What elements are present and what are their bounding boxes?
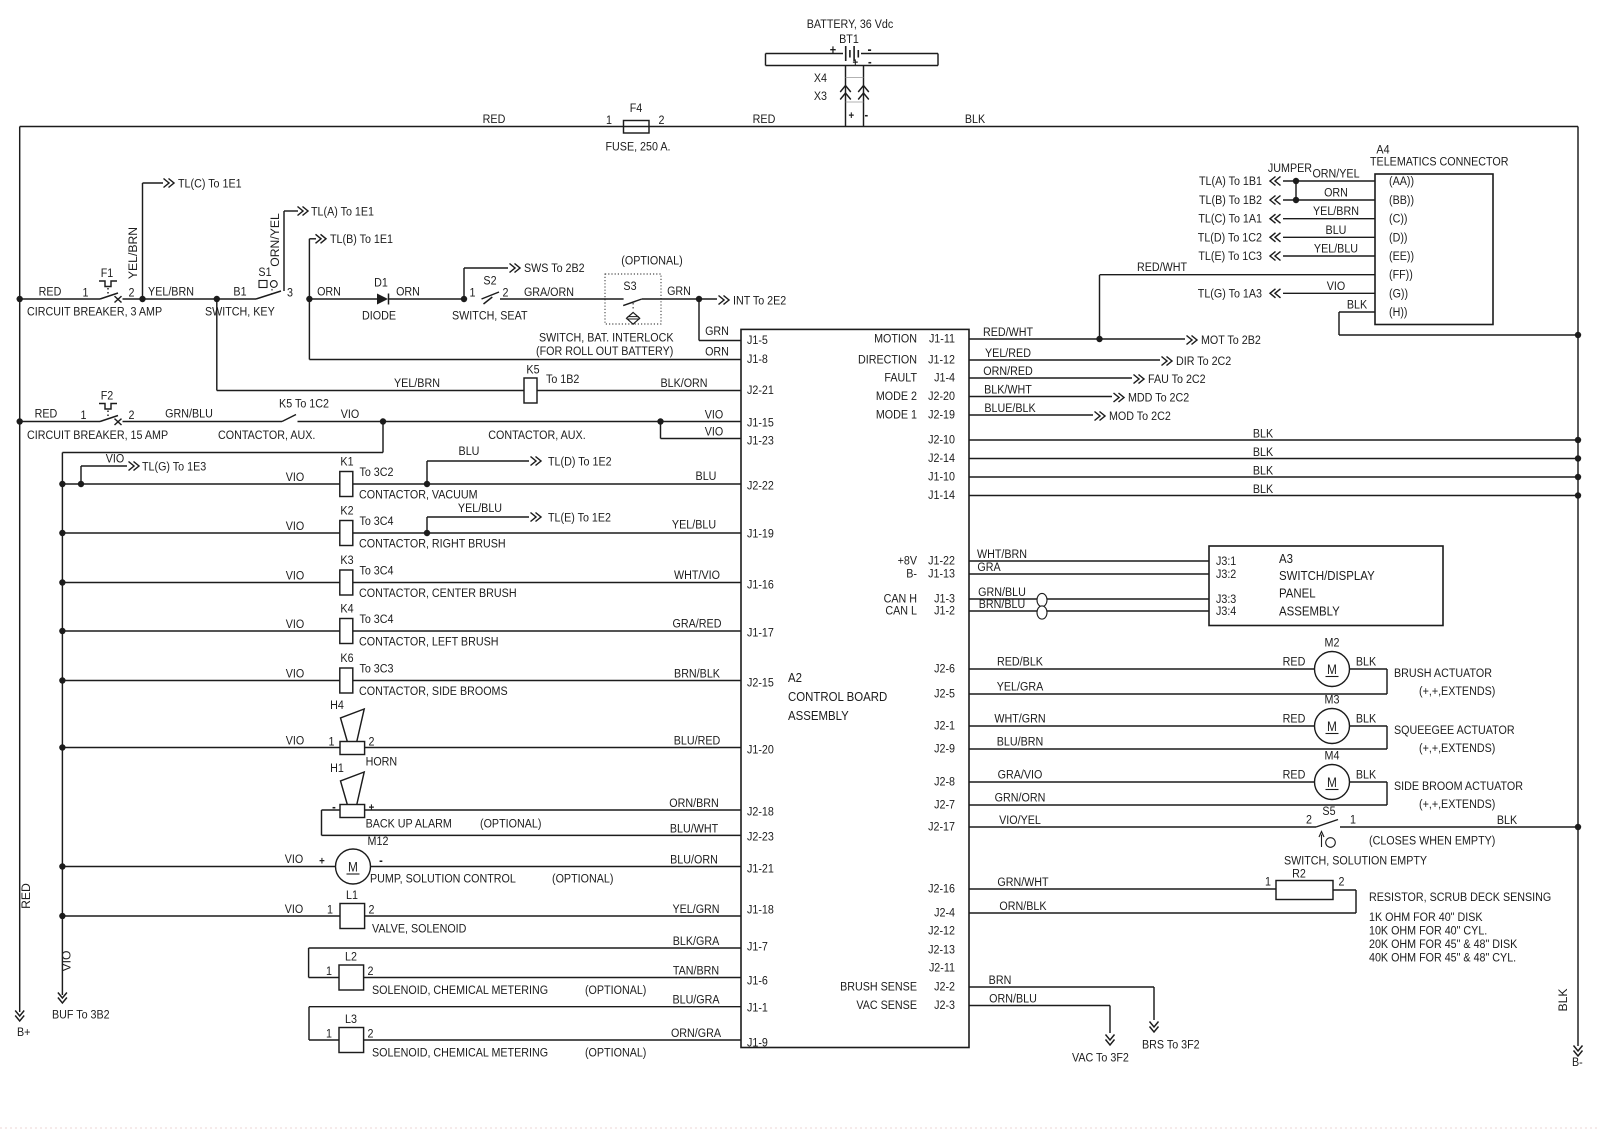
svg-text:(CLOSES WHEN EMPTY): (CLOSES WHEN EMPTY) [1369, 835, 1496, 848]
svg-text:RED/WHT: RED/WHT [983, 326, 1033, 339]
svg-text:YEL/GRN: YEL/GRN [672, 903, 719, 916]
svg-text:1: 1 [83, 287, 89, 300]
svg-text:CAN L: CAN L [885, 605, 917, 618]
svg-text:3: 3 [287, 287, 293, 300]
svg-text:1K OHM FOR 40" DISK: 1K OHM FOR 40" DISK [1369, 911, 1483, 924]
svg-text:GRN: GRN [667, 285, 691, 298]
svg-text:MDD To 2C2: MDD To 2C2 [1128, 392, 1189, 405]
svg-text:1: 1 [329, 736, 335, 749]
svg-text:M4: M4 [1325, 750, 1340, 763]
svg-text:PANEL: PANEL [1279, 586, 1316, 601]
svg-text:MOT To 2B2: MOT To 2B2 [1201, 334, 1261, 347]
svg-text:JUMPER: JUMPER [1268, 162, 1312, 175]
svg-text:YEL/BRN: YEL/BRN [394, 377, 440, 390]
svg-text:BLU/ORN: BLU/ORN [670, 854, 718, 867]
svg-text:VIO: VIO [286, 520, 305, 533]
svg-text:+: + [830, 43, 837, 57]
svg-text:S1: S1 [258, 266, 271, 279]
svg-text:J1-8: J1-8 [747, 353, 768, 366]
svg-text:CAN H: CAN H [884, 593, 917, 606]
svg-text:To 3C4: To 3C4 [359, 565, 394, 578]
svg-text:BLU/WHT: BLU/WHT [670, 823, 718, 836]
svg-text:+8V: +8V [898, 555, 918, 568]
svg-text:VIO/YEL: VIO/YEL [999, 814, 1041, 827]
svg-text:(+,+,EXTENDS): (+,+,EXTENDS) [1419, 798, 1495, 811]
svg-text:J2-23: J2-23 [747, 831, 774, 844]
svg-text:RED: RED [39, 286, 62, 299]
svg-text:(FOR ROLL OUT BATTERY): (FOR ROLL OUT BATTERY) [536, 345, 673, 358]
svg-text:J2-13: J2-13 [928, 944, 955, 957]
svg-text:2: 2 [659, 114, 665, 127]
svg-text:SWITCH/DISPLAY: SWITCH/DISPLAY [1279, 568, 1375, 583]
svg-text:J2-15: J2-15 [747, 677, 774, 690]
svg-text:VALVE, SOLENOID: VALVE, SOLENOID [372, 923, 466, 936]
svg-text:MODE 1: MODE 1 [876, 409, 917, 422]
svg-text:J2-20: J2-20 [928, 390, 955, 403]
svg-text:TL(A) To 1B1: TL(A) To 1B1 [1199, 175, 1262, 188]
svg-text:K1: K1 [340, 456, 353, 469]
svg-text:BLK: BLK [1356, 656, 1377, 669]
svg-text:M: M [348, 859, 358, 875]
svg-text:J2-8: J2-8 [934, 776, 955, 789]
svg-text:J1-9: J1-9 [747, 1037, 768, 1050]
svg-text:+: + [319, 856, 325, 868]
svg-text:CONTACTOR, SIDE BROOMS: CONTACTOR, SIDE BROOMS [359, 685, 508, 698]
svg-text:(D)): (D)) [1389, 232, 1408, 245]
svg-text:YEL/BLU: YEL/BLU [672, 519, 716, 532]
svg-text:MOD To 2C2: MOD To 2C2 [1109, 410, 1171, 423]
svg-text:BT1: BT1 [839, 33, 859, 46]
svg-text:INT To 2E2: INT To 2E2 [733, 295, 786, 308]
svg-text:M12: M12 [368, 835, 389, 848]
svg-text:2: 2 [503, 287, 509, 300]
svg-text:To 3C4: To 3C4 [359, 515, 394, 528]
svg-text:YEL/BLU: YEL/BLU [1314, 243, 1358, 256]
svg-text:X3: X3 [814, 90, 827, 103]
svg-text:(OPTIONAL): (OPTIONAL) [552, 873, 614, 886]
svg-text:J1-2: J1-2 [934, 605, 955, 618]
svg-text:VIO: VIO [285, 853, 304, 866]
svg-text:J2-17: J2-17 [928, 821, 955, 834]
svg-text:GRN/ORN: GRN/ORN [995, 792, 1046, 805]
svg-text:SIDE BROOM ACTUATOR: SIDE BROOM ACTUATOR [1394, 780, 1523, 793]
svg-text:BLK: BLK [1356, 713, 1377, 726]
svg-text:K4: K4 [340, 603, 354, 616]
svg-text:J1-5: J1-5 [747, 334, 768, 347]
svg-text:RED: RED [753, 113, 776, 126]
svg-text:YEL/GRA: YEL/GRA [997, 681, 1044, 694]
svg-text:2: 2 [1306, 814, 1312, 827]
svg-text:To 3C2: To 3C2 [359, 466, 393, 479]
svg-text:CONTACTOR, AUX.: CONTACTOR, AUX. [488, 429, 585, 442]
svg-text:MOTION: MOTION [874, 333, 917, 346]
svg-text:(+,+,EXTENDS): (+,+,EXTENDS) [1419, 742, 1495, 755]
svg-text:(H)): (H)) [1389, 306, 1408, 319]
svg-text:RESISTOR, SCRUB DECK SENSING: RESISTOR, SCRUB DECK SENSING [1369, 891, 1551, 904]
svg-text:RED/WHT: RED/WHT [1137, 262, 1187, 275]
svg-text:J2-3: J2-3 [934, 999, 955, 1012]
svg-text:J2-7: J2-7 [934, 799, 955, 812]
svg-text:GRN/BLU: GRN/BLU [165, 408, 213, 421]
svg-text:(EE)): (EE)) [1389, 250, 1414, 263]
svg-text:TL(B) To 1B2: TL(B) To 1B2 [1199, 194, 1262, 207]
svg-text:CONTACTOR, LEFT BRUSH: CONTACTOR, LEFT BRUSH [359, 636, 499, 649]
svg-text:2: 2 [368, 965, 374, 978]
svg-text:ORN/YEL: ORN/YEL [268, 213, 282, 267]
svg-text:K6: K6 [340, 652, 353, 665]
svg-text:S3: S3 [623, 280, 636, 293]
svg-text:J3:4: J3:4 [1216, 605, 1237, 618]
svg-text:(FF)): (FF)) [1389, 269, 1413, 282]
svg-text:(C)): (C)) [1389, 213, 1408, 226]
svg-text:GRA/ORN: GRA/ORN [524, 286, 574, 299]
svg-text:TL(C) To 1A1: TL(C) To 1A1 [1198, 213, 1262, 226]
svg-text:RED: RED [35, 408, 58, 421]
svg-text:(OPTIONAL): (OPTIONAL) [585, 1047, 647, 1060]
svg-text:J1-19: J1-19 [747, 528, 774, 541]
svg-text:J2-4: J2-4 [934, 907, 955, 920]
svg-text:SWITCH, SOLUTION EMPTY: SWITCH, SOLUTION EMPTY [1284, 855, 1427, 868]
svg-text:BLU/GRA: BLU/GRA [672, 994, 719, 1007]
svg-text:J2-11: J2-11 [929, 962, 955, 975]
svg-text:F4: F4 [630, 102, 643, 115]
svg-text:ORN/GRA: ORN/GRA [671, 1027, 721, 1040]
svg-text:DIRECTION: DIRECTION [858, 354, 917, 367]
svg-text:VIO: VIO [286, 570, 305, 583]
svg-text:RED: RED [1283, 713, 1306, 726]
svg-text:TL(D) To 1C2: TL(D) To 1C2 [1198, 232, 1262, 245]
svg-text:TL(B) To 1E1: TL(B) To 1E1 [330, 233, 393, 246]
svg-text:K2: K2 [340, 505, 353, 518]
svg-text:CIRCUIT BREAKER, 15 AMP: CIRCUIT BREAKER, 15 AMP [27, 429, 168, 442]
svg-text:M: M [1327, 661, 1337, 677]
svg-text:BLK: BLK [1556, 988, 1570, 1011]
svg-text:ORN/RED: ORN/RED [983, 365, 1032, 378]
svg-text:J1-15: J1-15 [747, 417, 774, 430]
svg-text:X4: X4 [814, 72, 828, 85]
svg-text:M: M [1327, 718, 1337, 734]
svg-text:VIO: VIO [341, 408, 360, 421]
svg-text:FAULT: FAULT [884, 372, 917, 385]
svg-text:J3:1: J3:1 [1216, 555, 1236, 568]
svg-text:GRA/RED: GRA/RED [673, 618, 722, 631]
svg-text:1: 1 [1350, 814, 1356, 827]
svg-text:ORN/BRN: ORN/BRN [669, 797, 718, 810]
svg-text:J1-17: J1-17 [747, 627, 774, 640]
svg-text:2: 2 [1339, 876, 1345, 889]
svg-text:J1-22: J1-22 [928, 555, 955, 568]
svg-text:VIO: VIO [106, 453, 125, 466]
svg-text:SOLENOID, CHEMICAL METERING: SOLENOID, CHEMICAL METERING [372, 984, 548, 997]
svg-text:VIO: VIO [286, 618, 305, 631]
svg-text:VIO: VIO [705, 426, 724, 439]
svg-text:YEL/RED: YEL/RED [985, 347, 1031, 360]
svg-text:40K OHM FOR 45" & 48" CYL.: 40K OHM FOR 45" & 48" CYL. [1369, 952, 1516, 965]
svg-text:BLK: BLK [1253, 446, 1274, 459]
svg-text:PUMP, SOLUTION CONTROL: PUMP, SOLUTION CONTROL [370, 873, 516, 886]
svg-text:F2: F2 [101, 390, 114, 403]
svg-text:MODE 2: MODE 2 [876, 390, 917, 403]
svg-text:-: - [332, 800, 336, 814]
svg-text:VIO: VIO [1327, 280, 1346, 293]
svg-text:BRN: BRN [989, 974, 1012, 987]
svg-text:F1: F1 [101, 267, 114, 280]
svg-text:S5: S5 [1322, 805, 1335, 818]
svg-text:(+,+,EXTENDS): (+,+,EXTENDS) [1419, 685, 1495, 698]
svg-text:L1: L1 [346, 889, 358, 902]
svg-text:ASSEMBLY: ASSEMBLY [788, 708, 849, 723]
svg-text:2: 2 [129, 409, 135, 422]
svg-text:FAU To 2C2: FAU To 2C2 [1148, 373, 1206, 386]
svg-text:YEL/BRN: YEL/BRN [126, 227, 140, 279]
svg-text:CONTACTOR, RIGHT BRUSH: CONTACTOR, RIGHT BRUSH [359, 538, 506, 551]
svg-text:DIODE: DIODE [362, 310, 396, 323]
svg-text:20K OHM FOR 45" & 48" DISK: 20K OHM FOR 45" & 48" DISK [1369, 938, 1518, 951]
svg-text:-: - [379, 854, 383, 868]
svg-text:TL(A) To 1E1: TL(A) To 1E1 [311, 206, 374, 219]
svg-text:BATTERY, 36 Vdc: BATTERY, 36 Vdc [807, 18, 894, 31]
svg-text:(AA)): (AA)) [1389, 175, 1414, 188]
svg-text:J1-10: J1-10 [928, 471, 955, 484]
svg-text:J2-16: J2-16 [928, 883, 955, 896]
svg-text:S2: S2 [483, 275, 496, 288]
svg-text:1: 1 [327, 904, 333, 917]
svg-text:BLU/RED: BLU/RED [674, 735, 721, 748]
svg-text:(G)): (G)) [1389, 288, 1408, 301]
svg-text:R2: R2 [1292, 868, 1306, 881]
svg-text:To 3C3: To 3C3 [359, 663, 393, 676]
svg-text:TL(C) To 1E1: TL(C) To 1E1 [178, 178, 242, 191]
svg-text:A4: A4 [1376, 144, 1390, 157]
svg-text:J1-18: J1-18 [747, 904, 774, 917]
svg-text:(BB)): (BB)) [1389, 194, 1414, 207]
svg-text:CONTACTOR, AUX.: CONTACTOR, AUX. [218, 429, 315, 442]
svg-text:M3: M3 [1325, 694, 1340, 707]
svg-text:SWITCH, BAT. INTERLOCK: SWITCH, BAT. INTERLOCK [539, 332, 674, 345]
svg-text:J3:3: J3:3 [1216, 593, 1236, 606]
svg-text:RED: RED [19, 883, 33, 909]
svg-text:GRN/WHT: GRN/WHT [997, 876, 1048, 889]
svg-text:VAC SENSE: VAC SENSE [856, 999, 917, 1012]
svg-text:BLU: BLU [1326, 224, 1347, 237]
svg-text:BLK: BLK [1253, 483, 1274, 496]
svg-text:+: + [848, 111, 854, 123]
svg-text:J1-14: J1-14 [928, 489, 955, 502]
svg-text:VIO: VIO [286, 668, 305, 681]
svg-text:2: 2 [129, 287, 135, 300]
svg-text:J1-6: J1-6 [747, 975, 768, 988]
svg-text:J2-5: J2-5 [934, 688, 955, 701]
svg-text:J2-1: J2-1 [934, 720, 955, 733]
svg-text:RED: RED [483, 113, 506, 126]
svg-text:1: 1 [470, 287, 476, 300]
svg-text:J2-6: J2-6 [934, 663, 955, 676]
svg-text:GRN/BLU: GRN/BLU [978, 586, 1026, 599]
svg-text:VIO: VIO [285, 903, 304, 916]
svg-text:BLK: BLK [1253, 465, 1274, 478]
svg-text:BACK UP ALARM: BACK UP ALARM [366, 818, 452, 831]
svg-text:VIO: VIO [705, 409, 724, 422]
svg-text:J1-7: J1-7 [747, 941, 768, 954]
svg-text:J1-23: J1-23 [747, 435, 774, 448]
svg-text:BLK: BLK [1356, 769, 1377, 782]
svg-text:2: 2 [369, 736, 375, 749]
svg-text:J1-3: J1-3 [934, 593, 955, 606]
svg-text:M: M [1327, 774, 1337, 790]
svg-text:TL(E) To 1E2: TL(E) To 1E2 [548, 512, 611, 525]
svg-text:RED: RED [1283, 769, 1306, 782]
svg-text:YEL/BRN: YEL/BRN [1313, 206, 1359, 219]
svg-text:ORN: ORN [317, 286, 341, 299]
svg-text:ORN/BLU: ORN/BLU [989, 993, 1037, 1006]
svg-text:J1-13: J1-13 [928, 568, 955, 581]
svg-text:CONTACTOR, VACUUM: CONTACTOR, VACUUM [359, 489, 478, 502]
svg-text:BLK: BLK [1497, 814, 1518, 827]
svg-text:B+: B+ [17, 1026, 31, 1039]
svg-text:RED/BLK: RED/BLK [997, 656, 1043, 669]
svg-text:FUSE, 250 A.: FUSE, 250 A. [605, 141, 670, 154]
svg-text:BRS To 3F2: BRS To 3F2 [1142, 1039, 1200, 1052]
svg-text:TELEMATICS CONNECTOR: TELEMATICS CONNECTOR [1370, 156, 1509, 169]
svg-text:+: + [369, 803, 375, 815]
svg-text:BRN/BLU: BRN/BLU [979, 598, 1026, 611]
svg-text:2: 2 [368, 1028, 374, 1041]
svg-text:BLK/ORN: BLK/ORN [660, 377, 707, 390]
svg-text:ORN/BLK: ORN/BLK [999, 900, 1046, 913]
svg-text:1: 1 [606, 114, 612, 127]
svg-text:BRUSH SENSE: BRUSH SENSE [840, 981, 917, 994]
svg-text:J2-2: J2-2 [934, 981, 955, 994]
svg-text:K5 To 1C2: K5 To 1C2 [279, 398, 329, 411]
svg-text:GRA/VIO: GRA/VIO [998, 769, 1043, 782]
svg-text:D1: D1 [374, 277, 388, 290]
svg-text:L3: L3 [345, 1013, 357, 1026]
svg-text:A3: A3 [1279, 551, 1293, 566]
svg-text:(OPTIONAL): (OPTIONAL) [480, 818, 542, 831]
svg-text:J1-16: J1-16 [747, 579, 774, 592]
svg-text:CONTACTOR, CENTER BRUSH: CONTACTOR, CENTER BRUSH [359, 587, 517, 600]
svg-text:BLU/BRN: BLU/BRN [997, 736, 1044, 749]
svg-text:J1-21: J1-21 [747, 863, 774, 876]
svg-text:SOLENOID, CHEMICAL METERING: SOLENOID, CHEMICAL METERING [372, 1047, 548, 1060]
svg-text:BLK: BLK [1347, 299, 1368, 312]
svg-text:J2-14: J2-14 [928, 452, 955, 465]
svg-text:VAC To 3F2: VAC To 3F2 [1072, 1052, 1129, 1065]
svg-text:J1-12: J1-12 [928, 354, 955, 367]
svg-text:L2: L2 [345, 951, 357, 964]
svg-text:J2-19: J2-19 [928, 409, 955, 422]
svg-text:B1: B1 [233, 286, 246, 299]
svg-text:H4: H4 [330, 699, 344, 712]
svg-text:BLU: BLU [459, 445, 480, 458]
svg-text:TAN/BRN: TAN/BRN [673, 965, 719, 978]
svg-text:YEL/BLU: YEL/BLU [458, 502, 502, 515]
svg-text:SWITCH, KEY: SWITCH, KEY [205, 306, 275, 319]
svg-text:J2-22: J2-22 [747, 480, 774, 493]
svg-text:GRN: GRN [705, 325, 729, 338]
svg-text:2: 2 [369, 904, 375, 917]
svg-text:H1: H1 [330, 762, 344, 775]
svg-text:HORN: HORN [366, 756, 398, 769]
svg-text:K3: K3 [340, 554, 353, 567]
svg-text:BRUSH ACTUATOR: BRUSH ACTUATOR [1394, 667, 1492, 680]
svg-text:M2: M2 [1325, 637, 1340, 650]
svg-text:(OPTIONAL): (OPTIONAL) [621, 255, 683, 268]
svg-text:J2-12: J2-12 [928, 925, 955, 938]
svg-text:1: 1 [326, 1028, 332, 1041]
svg-text:B-: B- [906, 568, 917, 581]
svg-text:+: + [853, 58, 859, 70]
svg-text:J2-10: J2-10 [928, 434, 955, 447]
svg-text:BUF To 3B2: BUF To 3B2 [52, 1009, 110, 1022]
svg-text:WHT/VIO: WHT/VIO [674, 569, 720, 582]
svg-text:ORN/YEL: ORN/YEL [1312, 168, 1359, 181]
svg-text:1: 1 [1265, 876, 1271, 889]
svg-text:ORN: ORN [705, 346, 729, 359]
svg-text:BLK: BLK [965, 113, 986, 126]
svg-text:VIO: VIO [286, 471, 305, 484]
svg-text:DIR To 2C2: DIR To 2C2 [1176, 355, 1231, 368]
svg-text:J2-21: J2-21 [747, 384, 774, 397]
svg-text:K5: K5 [526, 364, 539, 377]
svg-text:J1-11: J1-11 [929, 333, 955, 346]
svg-text:(OPTIONAL): (OPTIONAL) [585, 984, 647, 997]
svg-text:ORN: ORN [396, 286, 420, 299]
svg-text:TL(D) To 1E2: TL(D) To 1E2 [548, 456, 612, 469]
svg-text:RED: RED [1283, 656, 1306, 669]
svg-text:BLUE/BLK: BLUE/BLK [984, 402, 1036, 415]
svg-text:J1-20: J1-20 [747, 744, 774, 757]
svg-text:CIRCUIT BREAKER, 3 AMP: CIRCUIT BREAKER, 3 AMP [27, 306, 162, 319]
svg-text:VIO: VIO [286, 735, 305, 748]
svg-text:SQUEEGEE ACTUATOR: SQUEEGEE ACTUATOR [1394, 724, 1515, 737]
svg-text:TL(E) To 1C3: TL(E) To 1C3 [1198, 250, 1262, 263]
svg-text:1: 1 [326, 965, 332, 978]
svg-text:A2: A2 [788, 670, 802, 685]
svg-text:CONTROL BOARD: CONTROL BOARD [788, 689, 887, 704]
svg-text:WHT/BRN: WHT/BRN [977, 548, 1027, 561]
svg-text:1: 1 [81, 409, 87, 422]
svg-text:B-: B- [1572, 1056, 1583, 1069]
svg-text:SWS To 2B2: SWS To 2B2 [524, 262, 585, 275]
svg-text:BLU: BLU [696, 470, 717, 483]
svg-text:SWITCH, SEAT: SWITCH, SEAT [452, 310, 528, 323]
svg-text:BLK/GRA: BLK/GRA [673, 935, 720, 948]
svg-text:J1-1: J1-1 [747, 1002, 768, 1015]
svg-text:TL(G) To 1E3: TL(G) To 1E3 [142, 461, 206, 474]
svg-text:BLK: BLK [1253, 428, 1274, 441]
svg-text:GRA: GRA [977, 561, 1001, 574]
svg-text:BLK/WHT: BLK/WHT [984, 384, 1032, 397]
svg-text:10K OHM FOR 40" CYL.: 10K OHM FOR 40" CYL. [1369, 925, 1487, 938]
svg-text:YEL/BRN: YEL/BRN [148, 286, 194, 299]
svg-text:VIO: VIO [60, 951, 74, 972]
svg-text:BRN/BLK: BRN/BLK [674, 668, 720, 681]
svg-text:J2-18: J2-18 [747, 806, 774, 819]
svg-text:J2-9: J2-9 [934, 743, 955, 756]
svg-text:J3:2: J3:2 [1216, 568, 1236, 581]
svg-text:TL(G) To 1A3: TL(G) To 1A3 [1198, 288, 1262, 301]
svg-text:WHT/GRN: WHT/GRN [994, 713, 1045, 726]
svg-text:-: - [868, 55, 872, 69]
svg-text:ASSEMBLY: ASSEMBLY [1279, 604, 1340, 619]
svg-text:ORN: ORN [1324, 187, 1348, 200]
svg-text:J1-4: J1-4 [934, 372, 955, 385]
svg-text:To 1B2: To 1B2 [546, 373, 579, 386]
svg-text:-: - [865, 108, 869, 122]
svg-text:To 3C4: To 3C4 [359, 613, 394, 626]
